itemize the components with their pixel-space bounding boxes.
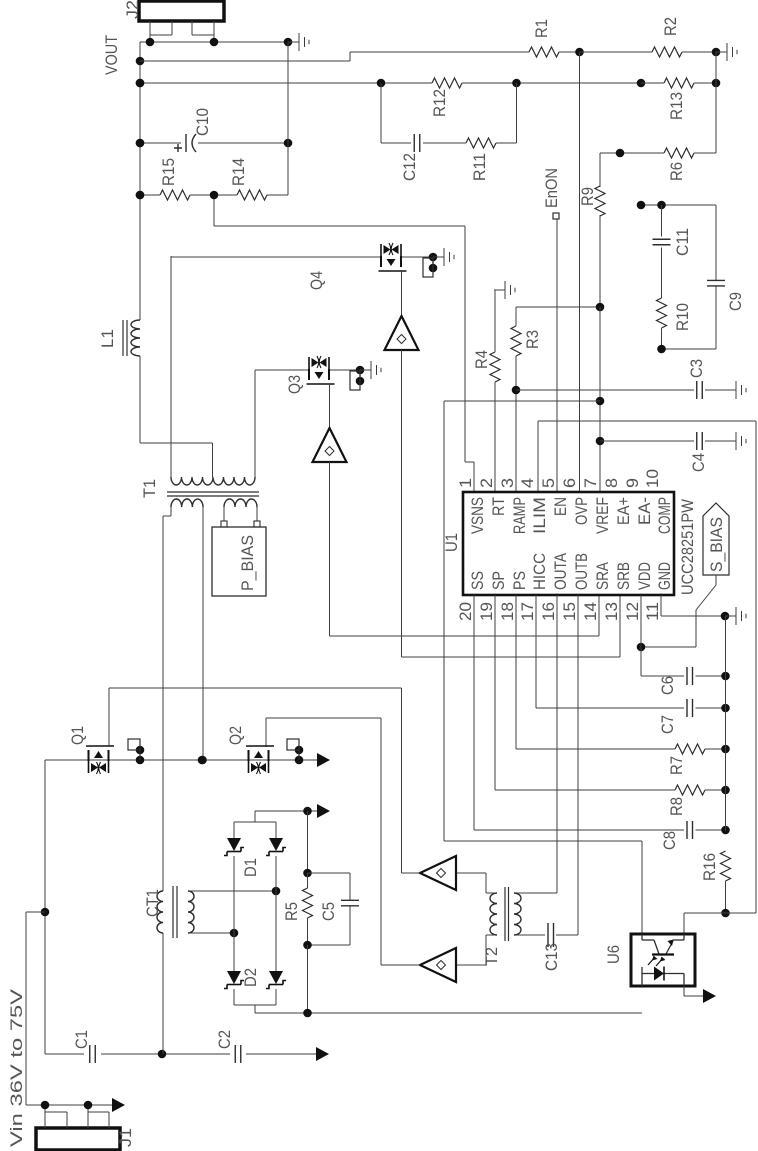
label J1: [116, 1128, 135, 1147]
svg-text:R16: R16: [700, 853, 719, 881]
transformer T1 secondary winding: [171, 477, 255, 485]
label R6: [667, 162, 686, 181]
transformer T1 bias winding: [224, 499, 257, 507]
svg-text:VSNS: VSNS: [468, 497, 487, 534]
svg-text:RT: RT: [489, 497, 508, 516]
label U6: [604, 945, 623, 964]
svg-text:R11: R11: [470, 153, 489, 181]
wire T2 sec bottom to driver: [456, 935, 497, 965]
pin 20 SS: [456, 571, 487, 621]
label C1: [72, 1030, 91, 1049]
wire input FET rail: [45, 746, 317, 765]
wire OVP net: [579, 52, 581, 492]
svg-text:R1: R1: [532, 19, 551, 38]
label C2: [215, 1030, 234, 1049]
wire T1 pri left: [163, 507, 171, 891]
diode D2 right: [266, 971, 286, 989]
wire T1 sec right to Q3: [254, 370, 256, 477]
wire T1 sec left to Q4: [170, 256, 172, 477]
svg-text:20: 20: [456, 602, 475, 621]
block P_BIAS: [212, 527, 266, 596]
node P_BIAS pin squares: [221, 521, 260, 527]
svg-text:8: 8: [602, 478, 621, 488]
svg-text:R10: R10: [673, 303, 692, 331]
wire opto anode out: [684, 986, 703, 996]
svg-text:R12: R12: [430, 89, 449, 117]
label Vin range: [7, 988, 26, 1147]
svg-text:L1: L1: [98, 329, 117, 348]
node bridge net arrow: [317, 804, 330, 818]
transformer T1 core: [167, 492, 259, 496]
resistor R16: [721, 851, 731, 881]
svg-text:R5: R5: [282, 902, 301, 921]
wire R1R2 junction to R2: [580, 51, 653, 53]
wire L1 to T1 center tap: [140, 356, 213, 477]
svg-text:C6: C6: [658, 676, 677, 695]
svg-text:OVP: OVP: [572, 497, 591, 525]
transformer CT1 core: [173, 886, 177, 938]
wire R16 bottom node: [684, 912, 756, 914]
wire Q4 gate to driver: [401, 271, 403, 316]
svg-text:C13: C13: [542, 943, 561, 971]
svg-text:OUTA: OUTA: [551, 552, 570, 590]
label R15: [159, 158, 178, 186]
svg-text:EN: EN: [551, 497, 570, 516]
pin 11 GND: [643, 562, 674, 621]
label Q2: [226, 726, 245, 745]
resistor R15: [160, 190, 190, 200]
svg-text:11: 11: [643, 602, 662, 621]
svg-text:6: 6: [560, 478, 579, 488]
svg-text:SP: SP: [489, 571, 508, 590]
resistor R14: [237, 190, 267, 200]
svg-text:EA-: EA-: [635, 497, 654, 525]
label R4: [472, 350, 491, 369]
node opto net arrow: [703, 989, 716, 1003]
wire SP net: [495, 595, 730, 794]
wire bridge right column: [275, 856, 277, 971]
pin 19 SP: [477, 571, 508, 621]
svg-text:VDD: VDD: [635, 562, 654, 590]
op-amp Q3 gate driver: [313, 428, 347, 462]
svg-text:R4: R4: [472, 350, 491, 369]
resistor R6: [664, 148, 694, 158]
pin 6 OVP: [560, 478, 591, 525]
pin 16 OUTA: [539, 552, 570, 621]
transistor Q4: [379, 243, 407, 271]
wire bridge left column: [233, 856, 235, 971]
label C13: [542, 943, 561, 971]
svg-text:C1: C1: [72, 1030, 91, 1049]
label D1: [241, 858, 260, 877]
svg-text:14: 14: [581, 602, 600, 621]
ground Q3: [360, 361, 381, 379]
connector J1: [36, 1128, 120, 1150]
resistor R10: [657, 298, 667, 328]
label Q3: [285, 375, 304, 394]
label C7: [658, 715, 677, 734]
svg-text:UCC28251PW: UCC28251PW: [678, 499, 697, 595]
node Q2 gate-source jumper: [287, 739, 299, 760]
node Q3 gate-source jumper: [350, 370, 360, 390]
wire S_BIAS to VDD: [637, 575, 716, 651]
ground U1: [725, 607, 746, 625]
node S_BIAS tag: [703, 503, 729, 575]
resistor R11: [466, 138, 496, 148]
label S_BIAS: [707, 517, 726, 572]
transformer T2 primary winding: [514, 893, 521, 935]
transistor Q1: [86, 746, 114, 774]
svg-text:HICC: HICC: [530, 553, 549, 590]
wire VREF net: [596, 307, 605, 492]
resistor R5: [307, 873, 309, 945]
node J1 net arrow: [112, 1098, 125, 1112]
svg-text:R8: R8: [667, 797, 686, 816]
svg-text:Q2: Q2: [226, 726, 245, 745]
svg-text:2: 2: [477, 478, 496, 488]
transistor U6 phototransistor: [642, 934, 684, 954]
label C10: [193, 108, 212, 136]
pin 2 RT: [477, 478, 508, 516]
svg-text:R15: R15: [159, 158, 178, 186]
svg-text:P_BIAS: P_BIAS: [238, 535, 257, 591]
svg-text:4: 4: [518, 478, 537, 488]
pin 7 VREF: [581, 478, 612, 534]
label R3: [523, 330, 542, 349]
wire OUTA net: [514, 595, 557, 893]
wire input cap line: [45, 1050, 316, 1059]
transistor Q3: [307, 356, 335, 384]
wire VOUT bus: [136, 42, 145, 320]
capacitor C10: [174, 134, 196, 152]
svg-text:SS: SS: [468, 571, 487, 590]
connector J2: [139, 1, 224, 21]
svg-text:Q1: Q1: [68, 726, 87, 745]
resistor R8: [675, 785, 705, 795]
resistor R7: [675, 744, 705, 754]
svg-text:C7: C7: [658, 715, 677, 734]
svg-text:RAMP: RAMP: [510, 497, 529, 534]
ground C3: [736, 381, 746, 399]
pin 12 VDD: [623, 562, 654, 621]
wire C10 line: [136, 139, 293, 148]
transformer CT1 primary winding: [157, 891, 163, 933]
svg-text:9: 9: [623, 478, 642, 488]
wire J1 pins: [26, 1101, 112, 1128]
svg-text:EnON: EnON: [542, 168, 561, 208]
ground Q4: [433, 248, 454, 266]
svg-text:C4: C4: [689, 453, 708, 472]
svg-text:C10: C10: [193, 108, 212, 136]
svg-text:ILIM: ILIM: [530, 497, 549, 534]
capacitor C6: [687, 667, 693, 685]
wire VOUT to R1: [140, 52, 529, 61]
label C5: [319, 902, 338, 921]
wire CT1 sec bottom: [188, 929, 238, 938]
svg-text:19: 19: [477, 602, 496, 621]
wire R13 to R6: [715, 83, 717, 153]
svg-text:J2: J2: [123, 0, 142, 19]
transformer T2 secondary winding: [490, 893, 497, 935]
wire OUTB net: [514, 595, 578, 935]
wire VDD net: [641, 595, 730, 680]
wire SRA net: [330, 462, 600, 636]
pin 15 OUTB: [560, 553, 591, 621]
node rail net arrow: [317, 753, 330, 767]
wire opto collector to VREF pullup: [444, 401, 642, 934]
svg-text:CT1: CT1: [143, 889, 162, 917]
wire sense bottom line: [255, 945, 642, 1017]
transformer T1 primary winding: [171, 499, 203, 507]
wire RT net: [494, 382, 496, 492]
svg-text:C8: C8: [660, 831, 679, 850]
wire Q3 gate to driver: [329, 384, 331, 428]
inductor L1: [131, 320, 140, 356]
label D2: [241, 968, 260, 987]
svg-text:16: 16: [539, 602, 558, 621]
pin 1 VSNS: [456, 478, 487, 534]
transformer CT1 secondary winding: [188, 891, 194, 933]
resistor R3: [511, 326, 521, 356]
label C11: [673, 228, 692, 256]
resistor R13: [664, 78, 694, 88]
wire R15 row: [136, 42, 288, 199]
wire to R13: [641, 82, 664, 84]
svg-text:C5: C5: [319, 902, 338, 921]
node Q4 gate-source jumper: [423, 257, 433, 277]
label C6: [658, 676, 677, 695]
label EnON: [542, 168, 561, 208]
wire J2 pins to output node: [140, 21, 292, 46]
svg-text:U6: U6: [604, 945, 623, 964]
svg-text:C9: C9: [726, 292, 745, 311]
label R1: [532, 19, 551, 38]
ground C4: [736, 432, 746, 450]
wire C3 line: [516, 389, 736, 391]
label C8: [660, 831, 679, 850]
svg-text:R7: R7: [667, 756, 686, 775]
svg-text:R3: R3: [523, 330, 542, 349]
wire Q4 drain line: [171, 253, 437, 273]
label J2: [123, 0, 142, 19]
capacitor C13: [548, 923, 554, 947]
svg-text:R13: R13: [667, 92, 686, 120]
svg-text:EA+: EA+: [614, 497, 633, 525]
wire VREF pullup to opto: [444, 400, 600, 402]
wire ILIM net: [538, 421, 756, 913]
pin 8 EA+: [602, 478, 633, 525]
svg-text:J1: J1: [116, 1128, 135, 1147]
pin 17 HICC: [518, 553, 549, 621]
wire comp network bottom: [657, 345, 716, 354]
wire R13 right to R2 node: [694, 52, 720, 87]
wire CT1 sec top: [188, 887, 280, 896]
pin 5 EN: [539, 478, 570, 516]
wire Q3 drain line: [255, 366, 364, 386]
resistor R12: [432, 78, 462, 88]
node Q1 gate-source jumper: [128, 739, 140, 760]
ground R2: [716, 43, 737, 61]
label C9: [726, 292, 745, 311]
svg-text:T2: T2: [482, 947, 501, 966]
svg-text:10: 10: [643, 469, 662, 488]
label R9: [578, 187, 597, 206]
pin 9 EA-: [623, 478, 654, 525]
wire HICC net: [536, 595, 730, 712]
label R5: [282, 902, 301, 921]
capacitor C7: [687, 699, 693, 717]
svg-text:D1: D1: [241, 858, 260, 877]
capacitor C4: [697, 432, 703, 450]
label Q1: [68, 726, 87, 745]
label L1: [98, 329, 117, 348]
op-amp U6 optocoupler: [631, 934, 695, 986]
op-amp T2 upper driver: [420, 856, 456, 890]
svg-text:COMP: COMP: [655, 497, 674, 534]
resistor R4: [490, 352, 500, 382]
diode D2 left: [224, 971, 244, 989]
svg-text:R9: R9: [578, 187, 597, 206]
wire T1 pri right to FET rail: [198, 507, 207, 764]
capacitor C5 branch: [303, 873, 350, 949]
svg-text:Vin 36V to 75V: Vin 36V to 75V: [7, 988, 26, 1147]
svg-text:GND: GND: [655, 562, 674, 590]
pin 3 RAMP: [498, 478, 529, 534]
svg-text:12: 12: [623, 602, 642, 621]
label UCC28251PW: [678, 499, 697, 595]
svg-text:5: 5: [539, 478, 558, 488]
label T1: [140, 479, 159, 498]
svg-text:PS: PS: [510, 571, 529, 590]
svg-text:C3: C3: [687, 359, 706, 378]
svg-text:C12: C12: [400, 153, 419, 181]
label C4: [689, 453, 708, 472]
label R12: [430, 89, 449, 117]
resistor R9: [599, 153, 601, 307]
svg-text:Q4: Q4: [307, 271, 326, 290]
wire Vin feed: [26, 760, 49, 1105]
label C12: [400, 153, 419, 181]
pin 10 COMP: [643, 469, 674, 534]
wire VOUT sense rail: [136, 79, 646, 88]
svg-text:SRB: SRB: [614, 562, 633, 590]
node U6 light arrows: [648, 956, 666, 967]
label R11: [470, 153, 489, 181]
svg-text:17: 17: [518, 602, 537, 621]
pin 4 ILIM: [518, 478, 549, 534]
wire SRB net: [402, 350, 621, 657]
svg-text:R6: R6: [667, 162, 686, 181]
capacitor C9: [715, 205, 717, 349]
resistor R1: [529, 47, 559, 57]
label VOUT: [102, 35, 121, 75]
node R1/R2 junction: [559, 48, 584, 57]
op-amp U1 body: [463, 492, 674, 595]
diode U6 LED: [642, 967, 684, 986]
label R16: [700, 853, 719, 881]
wire lower driver to Q2 gate line: [266, 718, 420, 965]
wire R4 to ground: [495, 290, 505, 352]
wire C4 line: [600, 440, 736, 442]
svg-text:T1: T1: [140, 479, 159, 498]
wire opto emitter to R16 node: [683, 913, 685, 934]
label P_BIAS: [238, 535, 257, 591]
capacitor C12: [414, 134, 420, 152]
capacitor C2: [235, 1045, 241, 1063]
label R2: [661, 17, 680, 36]
wire bridge bottom rail: [234, 989, 276, 1013]
wire SS net: [474, 595, 730, 834]
wire T1 bias leads: [224, 507, 257, 521]
svg-text:C2: C2: [215, 1030, 234, 1049]
wire GND pin to ground: [661, 595, 729, 620]
wire CT1 primary bottom: [162, 933, 164, 1054]
svg-text:15: 15: [560, 602, 579, 621]
wire R3 top to VREF node: [516, 303, 604, 326]
label R10: [673, 303, 692, 331]
capacitor C1: [90, 1045, 96, 1063]
pin 18 PS: [498, 571, 529, 621]
wire upper driver to Q1 gate line: [109, 688, 420, 873]
op-amp Q4 gate driver: [385, 316, 419, 350]
wire VSNS divider tap: [214, 195, 474, 492]
svg-text:C11: C11: [673, 228, 692, 256]
svg-text:13: 13: [602, 602, 621, 621]
svg-text:Q3: Q3: [285, 375, 304, 394]
svg-text:S_BIAS: S_BIAS: [707, 517, 726, 572]
transistor Q2: [246, 746, 274, 774]
svg-text:3: 3: [498, 478, 517, 488]
label R8: [667, 797, 686, 816]
label CT1: [143, 889, 162, 917]
wire bridge top rail: [234, 807, 317, 838]
label R13: [667, 92, 686, 120]
capacitor C8: [687, 821, 693, 839]
svg-text:R14: R14: [229, 158, 248, 186]
wire ground bus right: [725, 616, 727, 831]
wire bridge output to R5: [303, 811, 312, 877]
wire C12/R11 branch: [381, 83, 517, 143]
svg-text:OUTB: OUTB: [572, 553, 591, 590]
svg-text:VREF: VREF: [593, 497, 612, 534]
svg-text:7: 7: [581, 478, 600, 488]
svg-text:D2: D2: [241, 968, 260, 987]
wire R2 to ground: [682, 48, 720, 57]
ground top output: [288, 33, 309, 51]
wire comp network top: [637, 201, 716, 210]
ground R4: [494, 281, 515, 299]
label R7: [667, 756, 686, 775]
capacitor C11: [661, 205, 663, 298]
wire RAMP net: [512, 356, 521, 492]
pin 14 SRA: [581, 561, 612, 621]
wire T2 sec top to driver: [456, 873, 497, 893]
wire R6 line / EA+ node: [600, 149, 716, 158]
label R14: [229, 158, 248, 186]
capacitor C3: [697, 381, 703, 399]
svg-text:18: 18: [498, 602, 517, 621]
diode D1 left: [224, 838, 244, 856]
node input line arrow: [316, 1047, 329, 1061]
label T2: [482, 947, 501, 966]
wire EN net: [556, 219, 558, 492]
op-amp T2 lower driver: [420, 948, 456, 982]
node EnON stub: [553, 213, 559, 219]
resistor R2: [652, 47, 682, 57]
transformer T2 core: [505, 887, 509, 941]
wire PS net: [516, 595, 730, 753]
svg-text:1: 1: [456, 478, 475, 488]
